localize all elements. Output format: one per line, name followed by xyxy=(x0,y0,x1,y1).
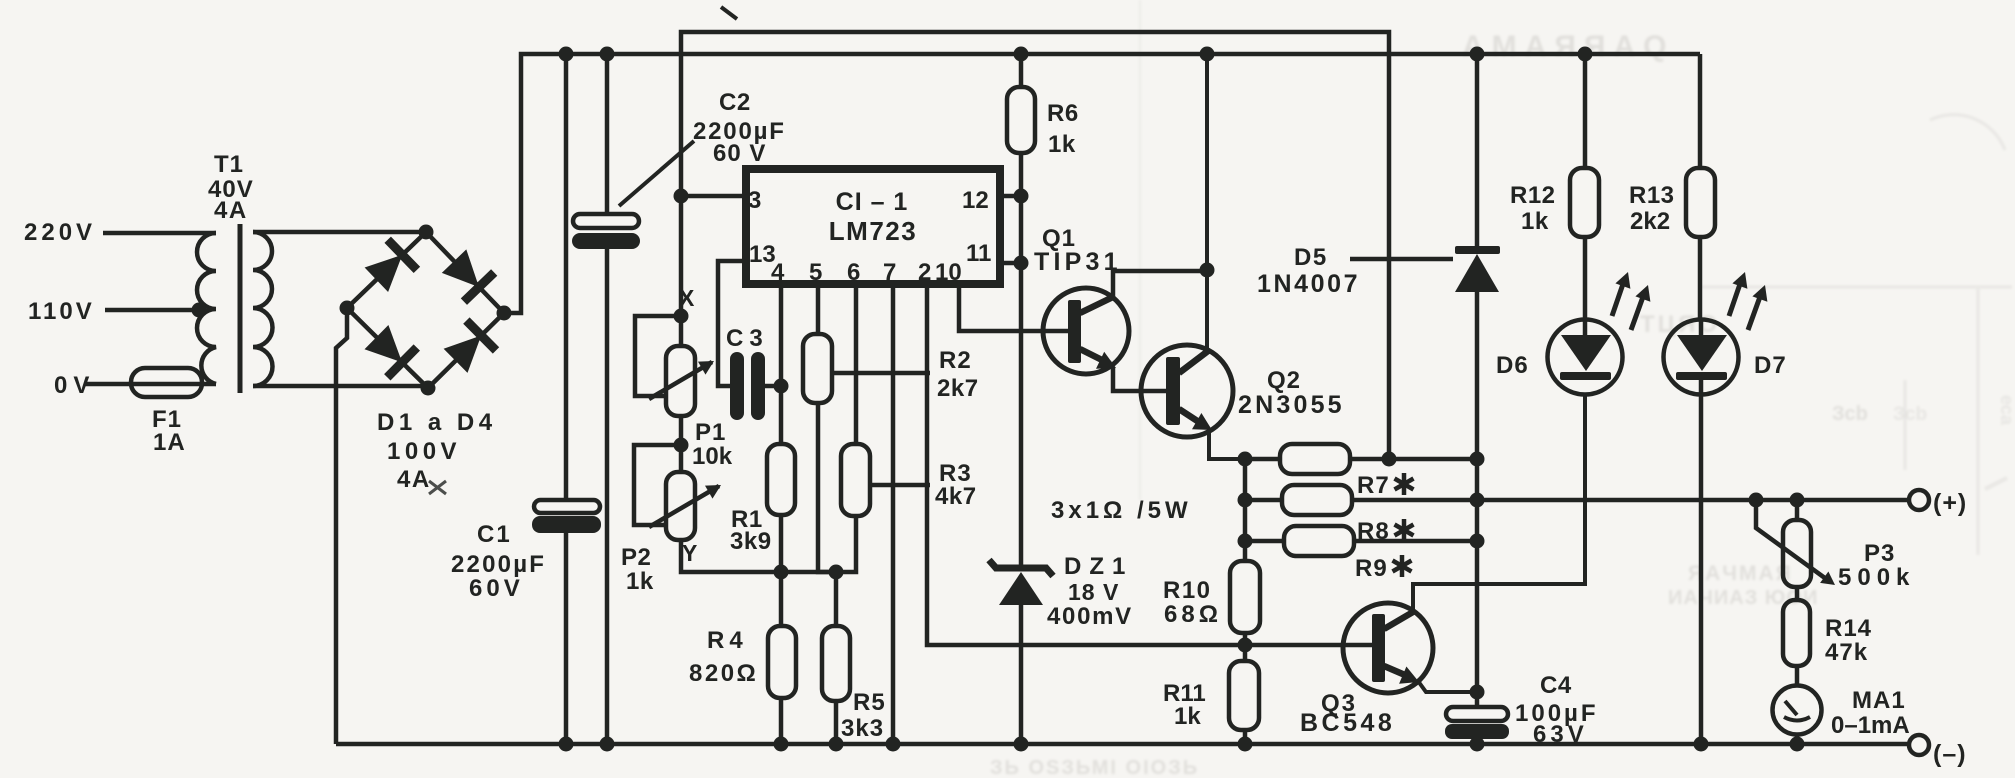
svg-text:R14: R14 xyxy=(1825,615,1872,642)
svg-text:110V: 110V xyxy=(28,298,95,325)
svg-text:R10: R10 xyxy=(1163,577,1212,604)
svg-text:ЯAЧМAЯ: ЯAЧМAЯ xyxy=(1688,562,1793,585)
svg-text:68Ω: 68Ω xyxy=(1164,601,1222,628)
svg-text:R8: R8 xyxy=(1357,518,1390,545)
svg-text:3k9: 3k9 xyxy=(730,528,772,555)
svg-text:T1: T1 xyxy=(214,151,244,178)
svg-text:60 V: 60 V xyxy=(713,140,766,167)
svg-text:4A: 4A xyxy=(214,197,248,224)
svg-text:47k: 47k xyxy=(1825,639,1868,666)
svg-text:0V: 0V xyxy=(54,372,95,399)
svg-text:LM723: LM723 xyxy=(829,216,917,246)
svg-text:820Ω: 820Ω xyxy=(689,660,758,687)
svg-text:12: 12 xyxy=(962,187,989,214)
svg-text:500k: 500k xyxy=(1838,564,1915,591)
svg-text:Зcb: Зcb xyxy=(1832,403,1868,425)
svg-text:2: 2 xyxy=(918,259,931,286)
svg-text:2k7: 2k7 xyxy=(937,375,979,402)
svg-text:R13: R13 xyxy=(1629,182,1675,209)
svg-text:BC548: BC548 xyxy=(1300,709,1395,737)
svg-text:Y: Y xyxy=(682,540,697,566)
svg-text:100V: 100V xyxy=(387,438,461,465)
svg-text:AMAЯЯAQ: AMAЯЯAQ xyxy=(1462,30,1674,63)
svg-text:10k: 10k xyxy=(692,443,733,470)
svg-text:P2: P2 xyxy=(621,544,651,571)
svg-text:1N4007: 1N4007 xyxy=(1257,270,1360,298)
svg-text:MA1: MA1 xyxy=(1852,687,1906,714)
svg-text:5: 5 xyxy=(809,259,822,286)
svg-text:18 V: 18 V xyxy=(1068,579,1119,605)
svg-text:Зcb: Зcb xyxy=(1893,404,1927,425)
svg-text:P3: P3 xyxy=(1864,540,1895,567)
svg-text:P1: P1 xyxy=(695,419,726,446)
svg-text:D7: D7 xyxy=(1754,352,1787,379)
svg-text:1k: 1k xyxy=(1521,208,1549,235)
svg-text:2200µF: 2200µF xyxy=(451,551,546,578)
svg-text:Q2: Q2 xyxy=(1267,367,1301,394)
svg-text:(–): (–) xyxy=(1933,740,1967,768)
svg-text:(+): (+) xyxy=(1933,489,1967,517)
svg-text:C2: C2 xyxy=(719,89,751,116)
svg-text:3k3: 3k3 xyxy=(841,715,884,742)
svg-text:D6: D6 xyxy=(1496,352,1529,379)
svg-text:6: 6 xyxy=(847,259,860,286)
svg-text:7: 7 xyxy=(883,259,896,286)
svg-text:3x1Ω /5W: 3x1Ω /5W xyxy=(1051,497,1192,524)
svg-text:1k: 1k xyxy=(1174,703,1201,730)
svg-text:60V: 60V xyxy=(469,575,524,602)
svg-text:11: 11 xyxy=(966,240,991,267)
svg-text:R5: R5 xyxy=(853,689,886,716)
svg-text:400mV: 400mV xyxy=(1047,603,1133,630)
svg-text:R12: R12 xyxy=(1510,182,1556,209)
svg-text:10: 10 xyxy=(935,259,962,286)
svg-text:1k: 1k xyxy=(1048,131,1076,158)
svg-text:2N3055: 2N3055 xyxy=(1238,391,1345,419)
svg-text:R2: R2 xyxy=(939,347,972,374)
svg-text:2k2: 2k2 xyxy=(1630,208,1670,235)
svg-text:63V: 63V xyxy=(1533,721,1588,748)
svg-text:C3: C3 xyxy=(726,325,769,352)
svg-text:3: 3 xyxy=(748,187,761,214)
svg-text:R6: R6 xyxy=(1047,100,1079,127)
svg-text:D1 a D4: D1 a D4 xyxy=(377,409,497,436)
svg-text:TIP31: TIP31 xyxy=(1034,248,1122,276)
svg-text:0–1mA: 0–1mA xyxy=(1831,712,1910,739)
svg-text:еса: еса xyxy=(1997,395,2015,426)
svg-text:4k7: 4k7 xyxy=(935,483,977,510)
svg-text:4A: 4A xyxy=(397,466,431,493)
svg-text:R4: R4 xyxy=(707,627,748,654)
svg-text:C4: C4 xyxy=(1540,672,1572,699)
svg-text:C1: C1 xyxy=(477,521,512,548)
svg-text:220V: 220V xyxy=(24,219,96,246)
svg-text:1A: 1A xyxy=(153,429,186,456)
svg-text:R7: R7 xyxy=(1357,472,1390,499)
svg-text:ЗЬ ΟЅЗЬМΙ ΟΙΟЗЬ: ЗЬ ΟЅЗЬМΙ ΟΙΟЗЬ xyxy=(990,757,1199,778)
svg-text:CI – 1: CI – 1 xyxy=(836,188,909,216)
svg-text:D5: D5 xyxy=(1294,244,1328,271)
svg-text:R9: R9 xyxy=(1355,555,1388,582)
svg-text:1k: 1k xyxy=(626,568,654,595)
svg-text:4: 4 xyxy=(771,259,785,286)
svg-text:X: X xyxy=(679,285,695,311)
svg-text:DZ1: DZ1 xyxy=(1064,553,1133,580)
